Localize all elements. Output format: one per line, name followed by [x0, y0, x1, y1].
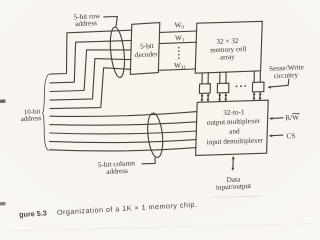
svg-text:and: and: [229, 127, 240, 135]
svg-text:CS: CS: [286, 132, 295, 140]
svg-text:address: address: [75, 19, 97, 28]
svg-text:decoder: decoder: [135, 50, 159, 59]
svg-text:address: address: [106, 167, 128, 176]
svg-text:array: array: [220, 53, 235, 62]
svg-text:5-bit: 5-bit: [140, 42, 154, 51]
svg-text:circuitry: circuitry: [274, 71, 299, 80]
svg-text:32-to-1: 32-to-1: [223, 108, 245, 117]
svg-text:address: address: [21, 115, 42, 123]
svg-text:R/W: R/W: [285, 113, 299, 122]
